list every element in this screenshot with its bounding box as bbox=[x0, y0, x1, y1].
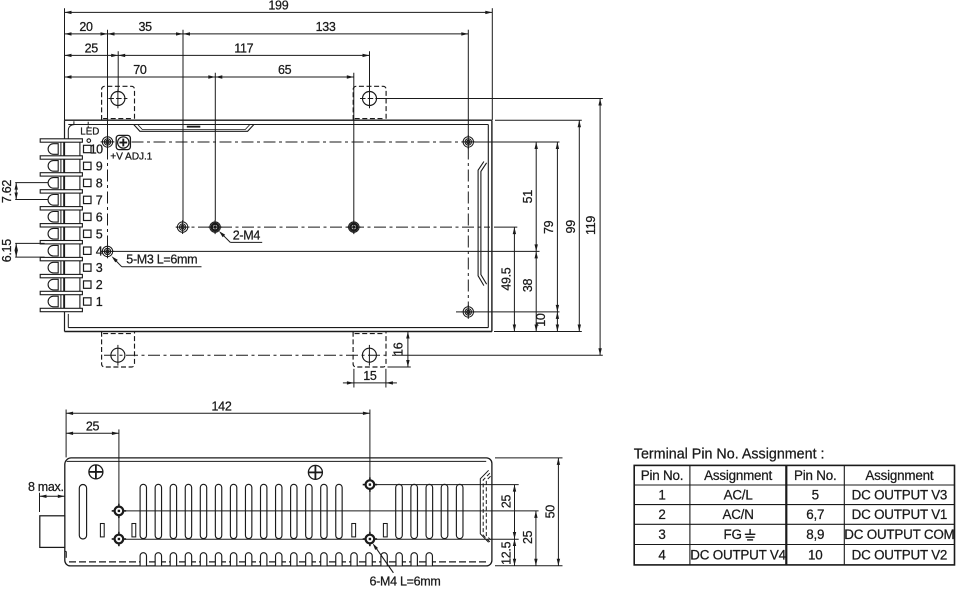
ext lines for 15 bbox=[354, 369, 386, 388]
dimension 50 bbox=[544, 458, 561, 566]
extension line left edge bbox=[64, 8, 66, 120]
ext lines pin pitch 7.62 bbox=[15, 183, 48, 200]
svg-text:FG: FG bbox=[723, 527, 741, 542]
small vent bars bbox=[100, 524, 387, 537]
dimension 142 bbox=[66, 399, 370, 415]
end flange seam (right, solid) bbox=[480, 470, 488, 542]
dimension 35 bbox=[108, 20, 184, 36]
svg-text:3: 3 bbox=[658, 527, 665, 542]
svg-text:5: 5 bbox=[812, 488, 819, 503]
svg-text:7: 7 bbox=[96, 193, 103, 207]
ext line case top right bbox=[495, 119, 582, 121]
screw 6-M4 right upper bbox=[363, 477, 377, 491]
dimension 20 bbox=[65, 20, 108, 36]
terminal screws (side profile) bbox=[48, 144, 58, 307]
screw 5-M3 bottom-right bbox=[461, 305, 475, 319]
power supply case outline (top view) bbox=[65, 120, 492, 331]
terminal block rails bbox=[61, 140, 80, 311]
svg-text:LED: LED bbox=[80, 126, 99, 137]
svg-text:AC/L: AC/L bbox=[724, 488, 753, 503]
label 2-M4 with leader bbox=[219, 228, 262, 242]
LED label and indicator bbox=[80, 122, 99, 143]
svg-text:99: 99 bbox=[564, 220, 578, 234]
dimension 51 bbox=[521, 142, 538, 251]
svg-text:+V ADJ.1: +V ADJ.1 bbox=[110, 152, 152, 163]
screw row line y=539 (under vents) bbox=[124, 538, 518, 540]
dimension 10 bbox=[534, 312, 559, 332]
heatsink flange (right side, top view) bbox=[478, 162, 487, 286]
svg-text:1: 1 bbox=[96, 295, 103, 309]
ext line case top right (side) bbox=[495, 457, 563, 459]
end flange seam (dashed pair) bbox=[483, 473, 490, 542]
svg-text:25: 25 bbox=[86, 419, 100, 433]
dimension 25 (top view) bbox=[65, 41, 119, 57]
ext line case bottom right (side) bbox=[495, 565, 563, 567]
screw 6-M4 right lower bbox=[363, 532, 377, 546]
ext line bottom screw row bbox=[475, 311, 560, 313]
svg-text:3: 3 bbox=[96, 261, 103, 275]
vent slot far left bbox=[79, 485, 86, 540]
dimension 70 bbox=[65, 63, 216, 79]
svg-text:199: 199 bbox=[268, 0, 288, 12]
svg-text:16: 16 bbox=[392, 342, 406, 356]
svg-text:4: 4 bbox=[658, 548, 666, 563]
svg-text:142: 142 bbox=[212, 399, 232, 413]
vertical centerline left screw column bbox=[107, 148, 109, 247]
AC input connector bbox=[40, 516, 65, 548]
svg-text:38: 38 bbox=[521, 279, 535, 293]
terminal block separator fins bbox=[40, 139, 82, 312]
svg-text:119: 119 bbox=[584, 216, 598, 235]
svg-text:2-M4: 2-M4 bbox=[233, 228, 261, 242]
svg-text:6-M4 L=6mm: 6-M4 L=6mm bbox=[370, 574, 441, 588]
svg-text:6: 6 bbox=[96, 210, 103, 224]
dimension 199 bbox=[65, 0, 493, 14]
table title bbox=[634, 446, 825, 462]
bottom edge vent slots bbox=[140, 553, 432, 566]
svg-text:12.5: 12.5 bbox=[499, 541, 513, 564]
svg-text:35: 35 bbox=[139, 20, 153, 34]
dimension 16 bbox=[392, 332, 410, 368]
svg-text:1: 1 bbox=[658, 488, 665, 503]
svg-text:51: 51 bbox=[521, 190, 535, 204]
label 8 max. with dim bbox=[28, 480, 65, 512]
dimension 79 bbox=[542, 142, 559, 312]
svg-text:Pin No.: Pin No. bbox=[641, 468, 684, 483]
svg-text:DC OUTPUT COM: DC OUTPUT COM bbox=[844, 527, 954, 542]
table grid bbox=[634, 465, 954, 565]
svg-text:8: 8 bbox=[96, 177, 103, 191]
case outline (bottom view) bbox=[65, 458, 492, 566]
dimension 7.62 bbox=[0, 180, 18, 203]
extension line x=118.2 bbox=[117, 51, 119, 91]
centerline short at bottom-right screw row bbox=[456, 311, 462, 313]
tapped hole 2-M4 #2 bbox=[347, 220, 361, 234]
inner top edge line (bottom view) bbox=[67, 460, 487, 462]
svg-text:10: 10 bbox=[90, 143, 103, 157]
svg-text:Assignment: Assignment bbox=[704, 468, 772, 483]
dimension 117 bbox=[118, 41, 369, 57]
ext lines pin pitch 6.15 bbox=[15, 243, 44, 257]
dimension 99 bbox=[564, 120, 581, 331]
svg-text:70: 70 bbox=[133, 63, 147, 77]
extension line x=369.5 bbox=[369, 51, 371, 91]
extension line from 5-M3 screw row bbox=[113, 250, 540, 252]
svg-text:49.5: 49.5 bbox=[499, 267, 513, 290]
svg-text:6.15: 6.15 bbox=[0, 239, 14, 262]
screw column line x=118.9 bbox=[118, 429, 120, 546]
svg-text:Terminal Pin No. Assignment :: Terminal Pin No. Assignment : bbox=[634, 446, 825, 462]
tapped hole 2-M4 #1 bbox=[208, 220, 222, 234]
extension line x=183 bbox=[182, 30, 184, 222]
terminal pin numbers 1-10 bbox=[90, 143, 103, 310]
dimension 12.5 bbox=[499, 539, 516, 566]
mounting bracket top-left bbox=[102, 86, 135, 120]
svg-text:AC/N: AC/N bbox=[722, 507, 753, 522]
ext line y=484.6 bbox=[375, 484, 518, 486]
label 6-M4 L=6mm with leader bbox=[370, 543, 441, 588]
extension line x=353.8 bbox=[353, 73, 355, 221]
svg-text:6,7: 6,7 bbox=[806, 507, 824, 522]
extension line x=215.3 bbox=[214, 73, 216, 221]
mounting bracket bottom-left bbox=[102, 332, 135, 367]
ext line case bottom right bbox=[494, 331, 582, 333]
case inner corner seam top-left bbox=[68, 121, 74, 138]
dimension 25 (right lower) bbox=[521, 511, 538, 566]
table cell texts bbox=[641, 468, 955, 563]
svg-text:5-M3 L=6mm: 5-M3 L=6mm bbox=[126, 253, 197, 267]
screw 5-M3 top-left (+V row) bbox=[101, 135, 115, 149]
centerline row through +V ADJ / right screw bbox=[132, 141, 467, 143]
ext line x=66.1 (side view) bbox=[65, 410, 67, 458]
screw 6-M4 left upper bbox=[112, 504, 126, 518]
screw column line x=369.9 bbox=[369, 410, 371, 547]
svg-text:Assignment: Assignment bbox=[865, 468, 933, 483]
centerline through bottom bracket holes bbox=[104, 354, 388, 356]
svg-text:25: 25 bbox=[500, 495, 514, 509]
ext line bracket hole row top bbox=[378, 98, 603, 100]
dimension 133 bbox=[183, 20, 468, 36]
dimension 38 bbox=[521, 251, 538, 331]
FG earth symbol bbox=[745, 529, 756, 540]
svg-text:117: 117 bbox=[234, 41, 253, 55]
ext line 2-M4 row right bbox=[494, 226, 517, 228]
centerline row through 2-M4 holes bbox=[176, 226, 490, 228]
screw 5-M3 left (labelled) bbox=[101, 245, 115, 259]
cover screw left (phillips) bbox=[89, 465, 103, 479]
svg-text:15: 15 bbox=[363, 369, 377, 383]
screw 6-M4 left lower bbox=[112, 532, 126, 546]
dimension 25 (right upper) bbox=[500, 485, 517, 539]
screw 5-M3 top-right bbox=[461, 135, 475, 149]
svg-text:20: 20 bbox=[79, 20, 93, 34]
screw row line y=510.9 (over vents) bbox=[124, 510, 538, 512]
screw 5-M3 mid-left row bbox=[176, 220, 190, 234]
hidden bottom edge (dashed) bbox=[69, 561, 487, 563]
mounting bracket bottom-right bbox=[353, 332, 386, 367]
potentiometer +V ADJ.1 bbox=[110, 135, 152, 162]
dimension 65 bbox=[215, 63, 353, 79]
svg-text:10: 10 bbox=[534, 313, 548, 327]
svg-text:2: 2 bbox=[96, 278, 103, 292]
dimension 15 bbox=[343, 369, 397, 385]
dimension 25 (side view top) bbox=[66, 419, 119, 435]
mounting bracket top-right bbox=[353, 86, 386, 120]
terminal pin squares bbox=[84, 145, 92, 305]
vent slots group 1 bbox=[140, 484, 342, 538]
vertical centerline right screw column bbox=[467, 148, 469, 307]
dimension 49.5 bbox=[499, 227, 516, 331]
svg-text:8,9: 8,9 bbox=[806, 527, 824, 542]
cover screw middle (phillips) bbox=[308, 465, 322, 479]
label 5-M3 L=6mm with leader bbox=[112, 253, 202, 267]
svg-text:Pin No.: Pin No. bbox=[794, 468, 837, 483]
svg-text:10: 10 bbox=[808, 548, 823, 563]
svg-text:2: 2 bbox=[658, 507, 665, 522]
svg-text:133: 133 bbox=[316, 20, 336, 34]
extension line x=468.3 bbox=[467, 30, 469, 137]
ext line bracket bottom right bbox=[388, 366, 411, 368]
svg-text:25: 25 bbox=[521, 530, 535, 544]
svg-text:9: 9 bbox=[96, 160, 103, 174]
svg-text:79: 79 bbox=[542, 220, 556, 234]
svg-text:DC OUTPUT V4: DC OUTPUT V4 bbox=[690, 548, 786, 563]
svg-text:50: 50 bbox=[544, 505, 558, 519]
svg-text:25: 25 bbox=[85, 41, 99, 55]
dimension 119 bbox=[584, 99, 602, 356]
ext line bottom bracket hole row bbox=[392, 354, 603, 356]
ext line screw row y=142 bbox=[475, 141, 560, 143]
svg-text:7.62: 7.62 bbox=[0, 180, 14, 203]
extension line x=107.5 bbox=[107, 30, 109, 137]
svg-text:DC OUTPUT V2: DC OUTPUT V2 bbox=[852, 548, 948, 563]
vent slots group 2 bbox=[396, 484, 463, 538]
dimension 6.15 bbox=[0, 239, 18, 262]
svg-text:65: 65 bbox=[278, 63, 292, 77]
bottom-left corner step bbox=[65, 551, 67, 557]
svg-text:DC OUTPUT V1: DC OUTPUT V1 bbox=[852, 507, 948, 522]
side louver vent (seen in top view) bbox=[134, 125, 254, 132]
svg-text:8 max.: 8 max. bbox=[28, 480, 64, 494]
svg-text:5: 5 bbox=[96, 227, 103, 241]
case inner left edge bottom segment bbox=[67, 314, 69, 328]
svg-text:DC OUTPUT V3: DC OUTPUT V3 bbox=[852, 488, 948, 503]
extension line right edge bbox=[491, 8, 493, 120]
